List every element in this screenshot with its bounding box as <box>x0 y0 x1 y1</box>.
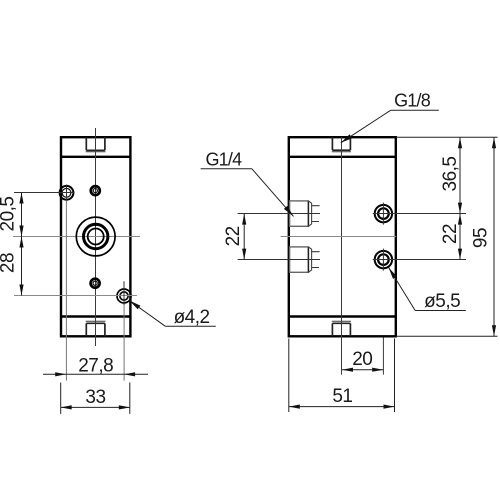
vertical centerline left view <box>95 128 97 346</box>
dimension 27,8 <box>43 373 148 375</box>
port center line upper (ext for dim 22 left) <box>238 213 320 215</box>
horizontal centerline right view <box>281 236 397 238</box>
svg-text:ø5,5: ø5,5 <box>424 291 460 312</box>
pilot hole top <box>91 186 100 195</box>
port center line lower (ext for dim 22 left) <box>238 259 320 261</box>
svg-text:G1/8: G1/8 <box>394 91 431 111</box>
svg-text:95: 95 <box>471 228 492 248</box>
port G1/4 lower <box>290 247 309 272</box>
dimension 22 right <box>459 214 461 260</box>
dimension 33 <box>60 383 62 414</box>
vertical centerline right view (continues as ext for dim 20) <box>341 137 343 375</box>
svg-text:20,5: 20,5 <box>0 197 19 232</box>
top tab left view <box>86 137 105 150</box>
horizontal centerline left view <box>13 236 140 238</box>
svg-text:28: 28 <box>0 253 19 273</box>
main bore circle <box>76 217 115 256</box>
vertical cross + ext from hole 4,2 down <box>123 281 125 305</box>
dimension 95 <box>493 137 495 336</box>
dimension 22 left of right view <box>243 214 245 260</box>
svg-text:22: 22 <box>440 224 461 244</box>
svg-text:G1/4: G1/4 <box>205 149 242 169</box>
bottom tab left view <box>86 323 105 336</box>
svg-text:20: 20 <box>352 349 372 370</box>
dimension 51 <box>288 339 290 413</box>
svg-text:ø4,2: ø4,2 <box>174 307 210 328</box>
side hole lower (dia 5,5) <box>375 251 392 268</box>
top extension line right <box>396 136 498 138</box>
port G1/4 upper <box>290 201 309 226</box>
ext line 28 lower (through hole 4,2) <box>14 295 137 297</box>
svg-text:22: 22 <box>223 226 244 246</box>
svg-text:36,5: 36,5 <box>440 157 461 192</box>
body outline right view <box>289 137 396 336</box>
top tab right view <box>332 137 350 150</box>
side hole upper <box>375 205 392 222</box>
mounting hole left (with cross) <box>60 186 74 200</box>
hole dia 4,2 bottom right <box>117 289 131 303</box>
dimension 20 <box>382 338 384 375</box>
svg-text:51: 51 <box>332 386 352 407</box>
extension line 20,5 upper / cross of hole <box>14 192 75 194</box>
dimension 28 <box>21 237 23 296</box>
pilot hole bottom <box>91 279 100 288</box>
dimension 20,5 <box>21 193 23 237</box>
dimension 36,5 <box>459 137 461 213</box>
bottom tab right view <box>332 323 350 336</box>
vertical cross + ext line from left hole down to 27,8 <box>66 185 68 201</box>
svg-text:33: 33 <box>85 387 105 408</box>
body outline left view <box>61 137 130 336</box>
svg-text:27,8: 27,8 <box>78 355 113 376</box>
bottom extension line right <box>396 335 498 337</box>
